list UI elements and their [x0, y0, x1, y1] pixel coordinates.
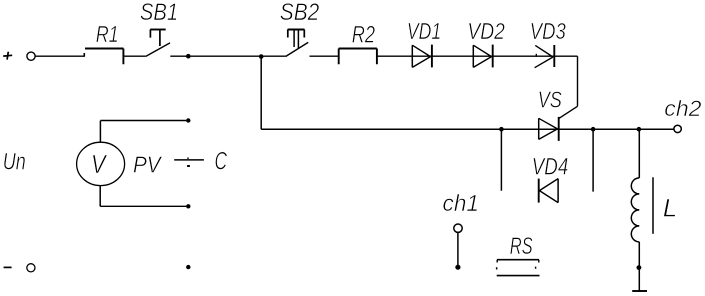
svg-text:C: C: [215, 148, 228, 176]
svg-text:VD1: VD1: [407, 18, 441, 44]
svg-text:ch2: ch2: [664, 96, 701, 121]
svg-text:VD2: VD2: [467, 18, 505, 44]
svg-text:RS: RS: [510, 233, 533, 260]
svg-text:VD3: VD3: [530, 18, 566, 44]
svg-text:SB1: SB1: [140, 0, 178, 26]
svg-text:L: L: [663, 195, 677, 223]
svg-text:R2: R2: [352, 22, 375, 49]
svg-text:SB2: SB2: [280, 0, 320, 26]
svg-text:Un: Un: [3, 148, 26, 175]
svg-text:VS: VS: [538, 87, 562, 113]
svg-text:R1: R1: [96, 21, 119, 47]
svg-text:ch1: ch1: [443, 190, 480, 216]
svg-text:V: V: [91, 151, 107, 179]
svg-text:PV: PV: [133, 152, 163, 178]
svg-text:VD4: VD4: [532, 153, 569, 180]
